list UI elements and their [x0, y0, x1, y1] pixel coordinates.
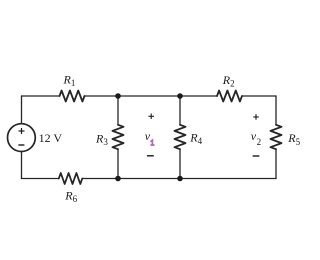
wire R3 upper stub [117, 96, 119, 125]
label v2 plus sign [253, 114, 258, 120]
resistor R6 [59, 173, 83, 184]
wire R4 lower stub [179, 149, 181, 178]
wire left rail upper: corner to source [21, 96, 23, 124]
svg-text:R4: R4 [189, 131, 202, 147]
wire top rail: source corner to R1 [22, 95, 60, 97]
voltage source plus sign [19, 128, 25, 134]
resistor R2 [217, 91, 242, 102]
wire bottom rail: left corner to R6 [22, 178, 59, 180]
label v1 plus sign [149, 114, 155, 120]
wire top rail: R1 to node a [85, 95, 119, 97]
label v1 subscript 1 [151, 140, 153, 145]
resistor R1 [60, 91, 85, 102]
svg-text:12 V: 12 V [39, 131, 63, 145]
label v1 minus sign [147, 155, 154, 157]
svg-text:v: v [145, 129, 151, 143]
svg-text:R6: R6 [64, 188, 77, 204]
resistor R3 [113, 125, 124, 149]
wire bottom rail: R6 to node c [82, 178, 118, 180]
resistor R5 [271, 125, 282, 149]
svg-text:R5: R5 [287, 131, 300, 147]
svg-text:2: 2 [257, 137, 262, 147]
node a dot (top left junction) [115, 93, 121, 99]
resistor R4 [175, 125, 186, 149]
node c dot (bottom left junction) [115, 176, 121, 182]
wire R4 upper stub [179, 96, 181, 125]
svg-text:R2: R2 [222, 73, 235, 89]
svg-text:R3: R3 [95, 132, 108, 148]
wire bottom rail: node d to right corner [180, 178, 276, 180]
wire left rail lower: source to bottom corner [21, 152, 23, 179]
wire right rail lower: R5 to bottom corner [275, 149, 277, 178]
node b dot (top right junction) [177, 93, 183, 99]
voltage source minus sign [18, 144, 24, 146]
label v2 minus sign [253, 155, 260, 157]
wire right rail upper: corner to R5 [275, 96, 277, 125]
voltage source V 12V circle [8, 124, 36, 152]
wire bottom rail: node c to node d [118, 178, 180, 180]
svg-text:R1: R1 [63, 72, 76, 88]
wire top rail: node a to node b [118, 95, 180, 97]
wire top rail: R2 to right corner [242, 95, 276, 97]
wire R3 lower stub [117, 149, 119, 178]
wire top rail: node b to R2 [180, 95, 217, 97]
node d dot (bottom right junction) [177, 176, 183, 182]
